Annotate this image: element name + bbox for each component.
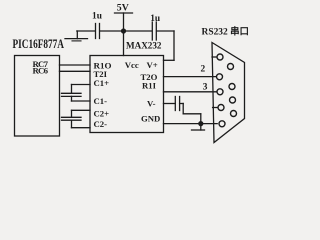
svg-text:1u: 1u	[150, 14, 160, 24]
svg-text:PIC16F877A: PIC16F877A	[13, 37, 65, 51]
svg-text:Vcc: Vcc	[125, 60, 139, 70]
svg-text:MAX232: MAX232	[126, 41, 162, 52]
svg-text:C1+: C1+	[94, 78, 110, 88]
svg-text:C2-: C2-	[94, 119, 108, 129]
svg-text:2: 2	[201, 64, 206, 74]
svg-text:RS232 串口: RS232 串口	[202, 25, 250, 37]
svg-text:1u: 1u	[92, 11, 102, 21]
svg-text:5V: 5V	[117, 2, 129, 13]
svg-text:3: 3	[203, 82, 208, 92]
svg-text:V+: V+	[147, 60, 158, 70]
svg-text:RC6: RC6	[33, 66, 49, 76]
svg-text:C1-: C1-	[94, 96, 108, 106]
svg-text:GND: GND	[141, 113, 160, 123]
svg-text:C2+: C2+	[94, 109, 110, 119]
svg-text:R1I: R1I	[142, 80, 157, 90]
svg-text:V-: V-	[147, 99, 156, 109]
